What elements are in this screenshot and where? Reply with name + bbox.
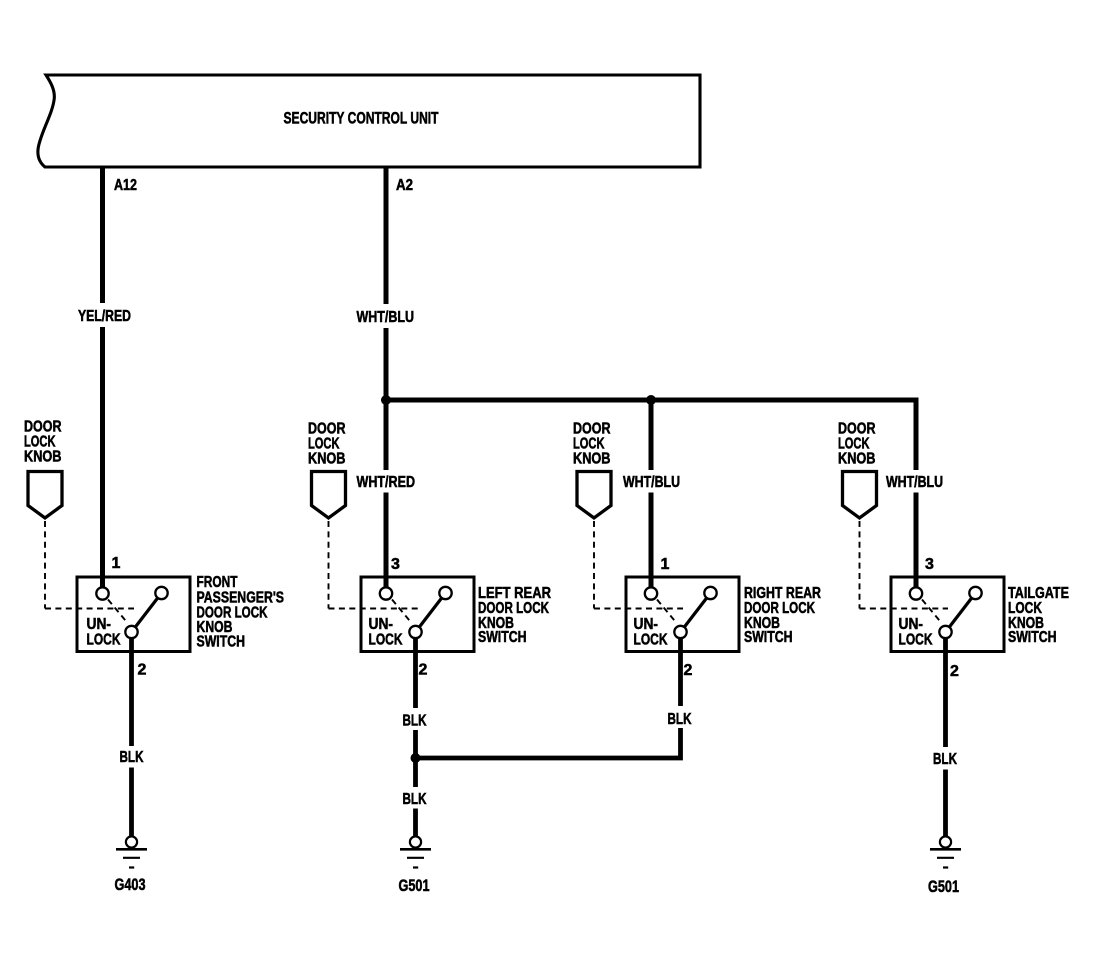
svg-text:WHT/BLU: WHT/BLU: [623, 474, 680, 491]
svg-text:WHT/BLU: WHT/BLU: [886, 474, 943, 491]
svg-text:3: 3: [925, 556, 934, 573]
svg-text:G501: G501: [399, 876, 430, 895]
svg-text:LOCK: LOCK: [87, 631, 122, 648]
svg-text:2: 2: [684, 662, 693, 679]
svg-text:A12: A12: [114, 177, 137, 194]
svg-text:SWITCH: SWITCH: [478, 629, 527, 646]
svg-text:KNOB: KNOB: [838, 451, 876, 468]
svg-text:BLK: BLK: [120, 749, 144, 766]
svg-text:3: 3: [391, 556, 400, 573]
svg-text:2: 2: [419, 662, 428, 679]
svg-text:SWITCH: SWITCH: [744, 629, 793, 646]
svg-text:FRONT: FRONT: [197, 574, 238, 591]
svg-text:2: 2: [950, 663, 959, 680]
svg-text:BLK: BLK: [403, 791, 427, 808]
svg-text:WHT/BLU: WHT/BLU: [357, 309, 415, 326]
svg-text:G403: G403: [115, 875, 146, 894]
svg-text:BLK: BLK: [668, 711, 692, 728]
svg-text:SWITCH: SWITCH: [197, 634, 246, 651]
svg-text:BLK: BLK: [933, 751, 957, 768]
svg-text:2: 2: [138, 662, 147, 679]
svg-text:LOCK: LOCK: [899, 631, 934, 648]
svg-text:KNOB: KNOB: [308, 451, 346, 468]
svg-text:WHT/RED: WHT/RED: [357, 474, 416, 491]
svg-text:SECURITY CONTROL UNIT: SECURITY CONTROL UNIT: [284, 110, 439, 128]
svg-text:1: 1: [112, 555, 121, 572]
svg-text:G501: G501: [928, 877, 959, 896]
svg-text:YEL/RED: YEL/RED: [78, 308, 131, 325]
svg-text:KNOB: KNOB: [24, 449, 62, 466]
svg-text:KNOB: KNOB: [573, 451, 611, 468]
svg-text:LOCK: LOCK: [369, 631, 404, 648]
svg-text:SWITCH: SWITCH: [1008, 629, 1057, 646]
svg-text:1: 1: [661, 556, 670, 573]
svg-text:A2: A2: [396, 177, 413, 194]
svg-text:BLK: BLK: [403, 713, 427, 730]
svg-text:LOCK: LOCK: [634, 631, 669, 648]
